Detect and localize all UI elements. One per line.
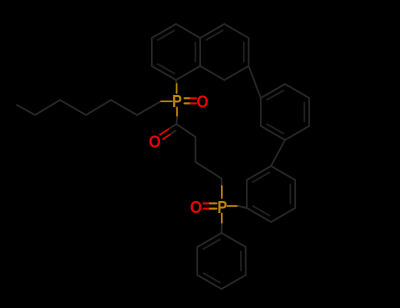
- bond ring B to ring E: [249, 66, 261, 98]
- chain alkyl zigzag left of P1 gray part: [17, 100, 161, 115]
- backbone chain C1 to P2: [177, 124, 222, 179]
- double bond P2=O3 orange halves: [210, 203, 217, 208]
- bond ring E to ring C: [271, 140, 285, 166]
- bond ring A to P1 gray part: [175, 80, 178, 84]
- bond P1 left orange stub: [161, 100, 172, 102]
- ring D (phenyl ring below P2): [197, 233, 245, 289]
- ring A (phenyl ring above P1): [152, 24, 200, 80]
- svg-text:O: O: [190, 197, 202, 217]
- ring E inner aromatic lines: [267, 90, 304, 133]
- bond P2 down gray part to ring D: [221, 224, 223, 233]
- ring C inner aromatic lines: [253, 172, 290, 215]
- bond P2 right orange stub: [228, 205, 239, 207]
- bond P2 down orange stub: [221, 214, 223, 225]
- bond P2 right gray part to ring C: [238, 206, 247, 208]
- double bond P2=O3 red halves: [204, 203, 211, 208]
- svg-text:O: O: [149, 131, 161, 151]
- double bond P1=O1 red halves: [191, 98, 197, 103]
- svg-text:P: P: [217, 197, 227, 217]
- svg-text:P: P: [172, 91, 182, 111]
- bond ring A to P1 orange stub: [176, 84, 178, 93]
- double bond P1=O1 orange halves: [185, 98, 191, 103]
- ring D inner aromatic lines: [204, 239, 241, 282]
- bond P1 to carbonyl gray part: [176, 117, 179, 124]
- bond P1 to carbonyl orange stub: [176, 108, 178, 118]
- backbone bond into P2 orange stub: [221, 186, 223, 198]
- ring C (ring right of P2): [247, 166, 295, 222]
- ring A inner aromatic lines: [158, 30, 195, 73]
- carbonyl double bond C1=O2 gray halves: [169, 124, 177, 135]
- svg-text:O: O: [197, 92, 209, 112]
- backbone bond into P2 gray part: [221, 179, 223, 187]
- ring B inner aromatic lines: [206, 30, 243, 61]
- ring B (fused ring right of ring A): [200, 24, 248, 80]
- ring E (right side ring): [261, 84, 309, 140]
- carbonyl double bond C1=O2 red halves: [160, 129, 170, 139]
